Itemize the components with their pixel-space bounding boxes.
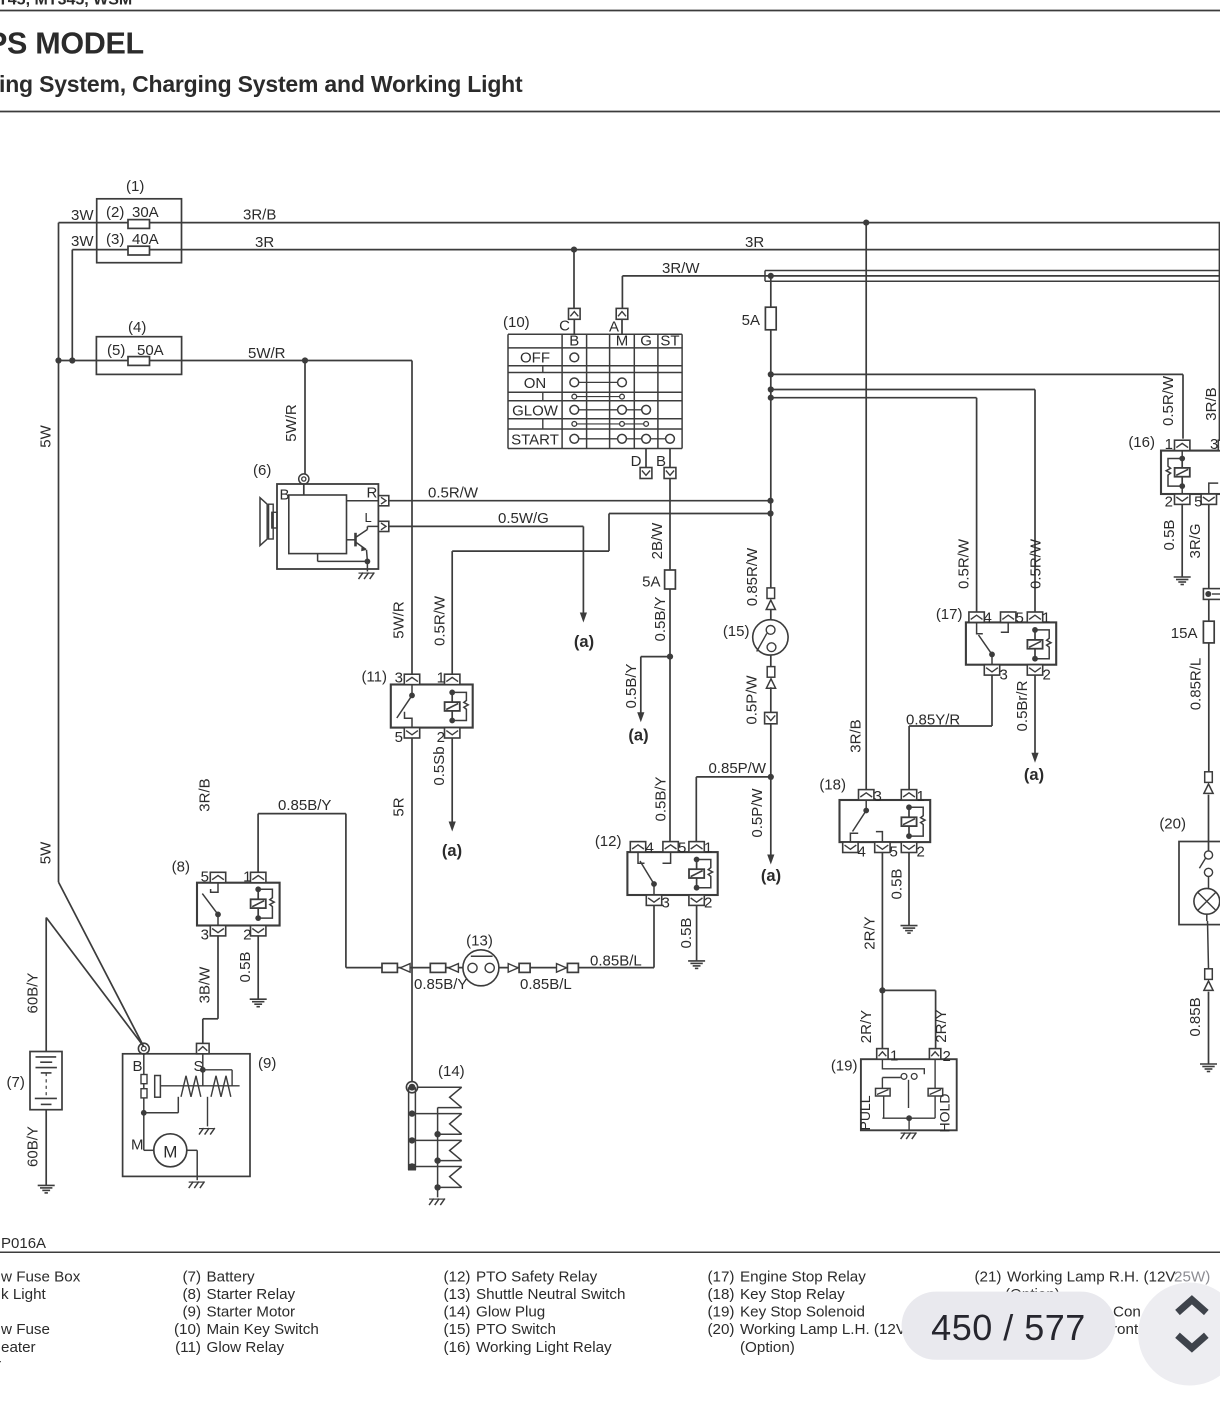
svg-text:0.85P/W: 0.85P/W <box>708 760 766 777</box>
solenoid pin 1 <box>877 1048 899 1065</box>
svg-text:3: 3 <box>201 927 209 944</box>
svg-text:3R/B: 3R/B <box>848 719 865 752</box>
relay 8 switch <box>202 883 221 926</box>
working lamp LH (20) <box>1159 795 1220 925</box>
label 0.85B/L (13) <box>520 976 572 993</box>
svg-text:3R/B: 3R/B <box>197 778 214 811</box>
svg-text:0.5B/Y: 0.5B/Y <box>652 596 669 641</box>
relay 12 pin 2 <box>689 895 712 912</box>
label 0.5R/W rotated <box>432 595 449 646</box>
label R (6) <box>367 485 378 502</box>
key stop relay (18) <box>819 777 930 843</box>
svg-text:3R/W: 3R/W <box>662 260 700 277</box>
svg-text:50A: 50A <box>137 342 164 359</box>
ground (12) <box>688 961 705 969</box>
svg-text:(8): (8) <box>172 859 190 876</box>
svg-text:1: 1 <box>243 869 251 886</box>
svg-text:Main Key Switch: Main Key Switch <box>207 1321 319 1338</box>
wire 3R/W <box>622 276 1220 309</box>
svg-text:1: 1 <box>890 1048 898 1065</box>
svg-text:1: 1 <box>917 788 925 805</box>
node (a) glow branch <box>628 727 648 745</box>
glow return bus <box>437 1108 439 1198</box>
starter coil ground <box>199 1097 215 1135</box>
svg-text:0.85B/Y: 0.85B/Y <box>414 976 467 993</box>
page header fragment (clipped) <box>0 0 132 9</box>
label 0.85B/L right <box>590 953 642 970</box>
glow bus terminal ring <box>406 1082 417 1093</box>
relay 12 pin 1 <box>689 840 712 857</box>
relay 16 pin 2 <box>1165 494 1190 511</box>
svg-text:T45, MT345, WSM: T45, MT345, WSM <box>0 0 132 9</box>
svg-text:C: C <box>559 318 570 335</box>
svg-text:3: 3 <box>1210 436 1218 453</box>
svg-text:3B/W: 3B/W <box>197 966 214 1004</box>
svg-text:0.5P/W: 0.5P/W <box>744 675 761 725</box>
starter S line <box>200 1054 232 1086</box>
relay 8 pin 1 <box>243 869 266 886</box>
relay 16 pin 5 <box>1194 494 1216 511</box>
svg-text:Key Stop Solenoid: Key Stop Solenoid <box>740 1304 865 1321</box>
wire C terminal <box>573 250 575 309</box>
svg-text:L: L <box>365 510 372 525</box>
svg-text:(7): (7) <box>182 1268 201 1285</box>
svg-text:0.5R/W: 0.5R/W <box>428 485 479 502</box>
relay 12 pin 3 <box>646 895 670 912</box>
wire 2R/Y <box>862 853 936 1049</box>
svg-text:5: 5 <box>678 840 686 857</box>
wire 0.5B ground (18) <box>889 853 910 926</box>
svg-text:5: 5 <box>201 869 209 886</box>
ground (20) <box>1200 1064 1217 1072</box>
PULL coil <box>857 1078 890 1131</box>
key stop solenoid (19) <box>831 1058 957 1131</box>
relay 12 pin 5 <box>663 840 686 857</box>
connector L out <box>378 521 388 531</box>
PTO switch (15) <box>723 610 788 655</box>
wire 0.5B/Y branch to (a) <box>623 657 670 723</box>
svg-text:(21): (21) <box>974 1268 1001 1285</box>
relay 17 pin 5 <box>1001 610 1024 627</box>
footer code P016A <box>1 1235 46 1252</box>
fuse box (1) <box>97 178 182 263</box>
key switch contacts AC1 row <box>572 394 625 399</box>
page scroll button <box>1138 1283 1220 1386</box>
svg-text:1: 1 <box>1042 610 1050 627</box>
svg-text:0.5W/G: 0.5W/G <box>498 510 549 527</box>
label 0.5P/W upper <box>744 675 761 725</box>
svg-text:0.5R/W: 0.5R/W <box>1028 538 1045 589</box>
label 3R/W <box>662 260 700 277</box>
svg-text:PTO Safety Relay: PTO Safety Relay <box>476 1268 598 1285</box>
glow relay (11) <box>361 669 472 728</box>
label 2B/W <box>649 522 666 560</box>
relay 11 pin 3 <box>395 670 420 687</box>
relay 16 pin 1 <box>1165 436 1190 453</box>
connector pair 1 (13) <box>382 963 410 972</box>
wire 5R <box>391 738 413 1082</box>
dynamo bottom link <box>318 554 371 572</box>
starter motor (9) <box>123 1054 277 1177</box>
wire 0.85R/W <box>744 330 774 606</box>
wire 5W/R to dynamo <box>283 361 305 475</box>
svg-text:P016A: P016A <box>1 1235 46 1252</box>
svg-text:(2): (2) <box>106 204 124 221</box>
svg-text:5A: 5A <box>742 312 760 329</box>
connector junction <box>1203 589 1220 600</box>
svg-text:(20): (20) <box>707 1321 734 1338</box>
junction dot 3R to key switch <box>571 247 577 253</box>
connector pair below PTO switch <box>766 655 775 688</box>
svg-text:B: B <box>280 487 290 504</box>
relay 8 coil <box>251 886 275 921</box>
svg-text:w Fuse: w Fuse <box>0 1321 50 1338</box>
wire 3B/W <box>197 936 219 1043</box>
svg-text:ON: ON <box>524 375 547 392</box>
3R/W bus outline <box>765 271 1220 282</box>
svg-text:(15): (15) <box>723 623 750 640</box>
svg-text:0.5R/W: 0.5R/W <box>1160 375 1177 426</box>
svg-text:0.85R/L: 0.85R/L <box>1188 658 1205 711</box>
key switch contacts ON row <box>570 378 627 387</box>
svg-text:5W/R: 5W/R <box>283 404 300 442</box>
relay 16 coil <box>1166 451 1190 494</box>
svg-text:(1): (1) <box>126 178 144 195</box>
relay 17 switch <box>977 622 1009 664</box>
starter B terminal <box>133 1043 150 1075</box>
svg-text:GLOW: GLOW <box>512 403 559 420</box>
svg-text:4: 4 <box>858 844 866 861</box>
wire 0.85Y/R <box>906 675 992 790</box>
junction dot 3R/W <box>768 273 774 279</box>
starter coil line <box>160 1085 239 1087</box>
svg-text:5: 5 <box>395 729 403 746</box>
svg-text:2R/Y: 2R/Y <box>933 1009 950 1042</box>
relay 17 coil <box>1027 627 1051 662</box>
svg-text:B: B <box>656 453 666 470</box>
label 5W upper <box>38 424 55 447</box>
svg-text:0.5B: 0.5B <box>678 918 695 949</box>
legend column 5 <box>974 1268 1210 1338</box>
svg-text:Key Stop Relay: Key Stop Relay <box>740 1286 845 1303</box>
svg-text:r: r <box>0 1356 1 1373</box>
svg-text:3W: 3W <box>71 207 94 224</box>
solenoid contacts <box>882 1074 917 1109</box>
svg-text:PS MODEL: PS MODEL <box>0 26 144 60</box>
label 5W/R <box>248 345 286 362</box>
svg-text:(a): (a) <box>1024 766 1044 784</box>
relay 17 pin 2 <box>1027 665 1051 684</box>
svg-text:0.85B/L: 0.85B/L <box>590 953 642 970</box>
svg-text:2R/Y: 2R/Y <box>862 916 879 949</box>
label (10) <box>503 314 530 331</box>
wire 0.85R/L <box>1188 643 1209 772</box>
legend column 1 <box>0 1268 81 1373</box>
svg-text:k Light: k Light <box>1 1286 47 1303</box>
glow plug 4 <box>415 1167 461 1191</box>
svg-text:Battery: Battery <box>207 1268 256 1285</box>
svg-text:15A: 15A <box>1171 625 1198 642</box>
glow plug (14) label <box>438 1063 465 1080</box>
svg-text:3R: 3R <box>745 234 764 251</box>
connector pair 2 (13) <box>430 963 458 972</box>
svg-text:(12): (12) <box>595 833 622 850</box>
fuse 15A <box>1171 599 1214 643</box>
svg-text:(13): (13) <box>443 1286 470 1303</box>
svg-text:5W/R: 5W/R <box>391 601 408 639</box>
svg-text:(11): (11) <box>361 669 387 686</box>
svg-text:3R/B: 3R/B <box>1203 387 1220 420</box>
relay 8 pin 5 <box>201 869 226 886</box>
wire 0.5R/W to glow relay <box>452 510 773 674</box>
ground (19) <box>901 1133 917 1140</box>
svg-text:B: B <box>569 332 579 349</box>
svg-text:0.5R/W: 0.5R/W <box>432 595 449 646</box>
svg-text:(a): (a) <box>628 727 648 745</box>
fuse F3 40A <box>106 231 159 255</box>
glow plug 3 <box>415 1140 461 1163</box>
label 3R mid <box>745 234 764 251</box>
connector pair (20) lower <box>1204 969 1213 991</box>
svg-text:ST: ST <box>660 332 679 349</box>
lamp bulb <box>1194 877 1220 915</box>
svg-text:5R: 5R <box>391 797 408 816</box>
svg-text:2: 2 <box>1043 667 1051 684</box>
svg-text:3R/B: 3R/B <box>243 207 276 224</box>
svg-text:START: START <box>511 432 559 449</box>
glow bus bar <box>409 1087 416 1170</box>
relay 12 pin 4 <box>630 840 654 857</box>
svg-text:G: G <box>640 332 652 349</box>
svg-text:0.5B: 0.5B <box>889 869 906 900</box>
svg-text:PTO Switch: PTO Switch <box>476 1321 556 1338</box>
wire 0.5B ground (16) <box>1161 504 1182 577</box>
wire B terminal <box>669 449 671 571</box>
svg-text:ront: ront <box>1112 1321 1139 1338</box>
svg-text:(a): (a) <box>761 867 781 885</box>
svg-text:2B/W: 2B/W <box>649 522 666 560</box>
ground (16) <box>1174 577 1191 585</box>
relay 11 pin 1 <box>437 670 460 687</box>
svg-text:(a): (a) <box>442 842 462 860</box>
svg-text:B: B <box>133 1058 143 1075</box>
svg-text:0.85B/L: 0.85B/L <box>520 976 572 993</box>
svg-text:w Fuse Box: w Fuse Box <box>0 1268 81 1285</box>
svg-text:(10): (10) <box>174 1321 201 1338</box>
connector pair 4 (13) <box>557 963 579 972</box>
svg-text:A: A <box>609 319 619 336</box>
title <box>0 26 144 60</box>
wire 3R/B right edge <box>1203 223 1220 441</box>
ground (6) <box>359 573 375 580</box>
svg-text:0.85R/W: 0.85R/W <box>744 547 761 606</box>
svg-text:3: 3 <box>1000 667 1008 684</box>
fuse F2 30A <box>106 204 159 228</box>
svg-text:Working Light Relay: Working Light Relay <box>476 1339 612 1356</box>
node (a) 0.5W/G <box>574 633 594 651</box>
svg-text:(3): (3) <box>106 231 124 248</box>
label 3W upper <box>71 207 94 224</box>
svg-text:OFF: OFF <box>520 350 550 367</box>
label 3R left <box>255 234 274 251</box>
wire 0.5B ground (8) <box>237 936 258 999</box>
svg-text:1: 1 <box>1165 436 1173 453</box>
wire 5W to starter <box>38 841 144 1046</box>
svg-text:5W/R: 5W/R <box>248 345 286 362</box>
svg-text:(18): (18) <box>819 777 846 794</box>
connector pair (20) upper <box>1204 772 1213 794</box>
svg-text:(17): (17) <box>707 1268 734 1285</box>
relay 17 pin 4 <box>969 610 992 627</box>
transistor Q <box>347 526 379 561</box>
wire 0.85B lower <box>1187 992 1209 1064</box>
svg-text:(6): (6) <box>253 462 271 479</box>
wire 0.85B/Y to shuttle switch <box>258 797 346 968</box>
pulley <box>260 498 277 546</box>
svg-text:60B/Y: 60B/Y <box>25 973 42 1014</box>
wire 0.85B/L from relay 12 <box>653 905 655 967</box>
svg-text:2: 2 <box>1165 494 1173 511</box>
svg-text:Working Lamp R.H. (12V: Working Lamp R.H. (12V <box>1007 1268 1176 1285</box>
legend column 4 <box>707 1268 949 1356</box>
ground (18) <box>901 926 918 934</box>
relay 12 coil <box>689 857 713 891</box>
key switch contacts GLOW row <box>570 405 651 414</box>
svg-text:(8): (8) <box>182 1286 201 1303</box>
svg-text:(9): (9) <box>258 1055 276 1072</box>
glow plug 2 <box>415 1114 461 1138</box>
svg-text:0.85Y/R: 0.85Y/R <box>906 712 960 729</box>
relay 18 pin 2 <box>901 842 925 860</box>
svg-text:Starter Motor: Starter Motor <box>207 1304 296 1321</box>
svg-text:3W: 3W <box>71 233 94 250</box>
svg-text:Glow Plug: Glow Plug <box>476 1304 545 1321</box>
wire 60B/Y battery positive <box>25 918 144 1052</box>
svg-text:2: 2 <box>704 895 712 912</box>
connector 0.5P/W <box>765 687 777 724</box>
fuse 5A (PTO feed) <box>742 276 777 330</box>
svg-text:2R/Y: 2R/Y <box>858 1010 875 1043</box>
svg-text:3R/G: 3R/G <box>1187 523 1204 558</box>
relay 11 coil <box>445 690 469 724</box>
wire 3R/G <box>1187 504 1209 588</box>
label 3W lower <box>71 233 94 250</box>
connector D <box>631 453 652 479</box>
svg-text:Shuttle Neutral Switch: Shuttle Neutral Switch <box>476 1286 625 1303</box>
key switch contacts OFF row <box>570 353 579 362</box>
wire 0.5Sb to (a) <box>431 738 456 832</box>
svg-text:(Option): (Option) <box>740 1339 795 1356</box>
footer rule <box>0 1251 1220 1253</box>
svg-text:(7): (7) <box>7 1074 25 1091</box>
svg-text:5W: 5W <box>38 841 55 864</box>
connector B <box>656 453 676 479</box>
svg-text:5: 5 <box>1194 494 1202 511</box>
relay 11 switch <box>397 685 415 728</box>
dynamo R link <box>347 500 379 502</box>
starter relay (8) <box>172 859 280 926</box>
wire 0.85P/W <box>708 724 773 780</box>
key switch contacts START row <box>570 434 675 443</box>
label 3R/B <box>243 207 276 224</box>
label B (6) <box>280 487 290 504</box>
node (a) 0.5P/W <box>761 867 781 885</box>
node (a) 0.5Br/R <box>1024 766 1044 784</box>
fuse F5 50A <box>107 342 164 365</box>
svg-text:30A: 30A <box>132 204 159 221</box>
wire 60B/Y battery negative <box>24 1110 46 1186</box>
wire 0.85B <box>1207 914 1209 969</box>
relay 8 pin 3 <box>201 926 226 944</box>
starter motor M <box>131 1113 187 1167</box>
starter contact plate <box>155 1076 161 1098</box>
starter motor ground <box>187 1150 205 1188</box>
wire 0.85B/Y up from pin1 <box>257 814 259 873</box>
svg-text:(4): (4) <box>128 319 146 336</box>
wire 3R/B top <box>59 223 1220 883</box>
svg-text:(20): (20) <box>1159 816 1186 833</box>
svg-text:3: 3 <box>395 670 403 687</box>
svg-text:0.5B: 0.5B <box>1161 520 1178 551</box>
ground (8) <box>250 999 267 1007</box>
wire 0.5R/W from R <box>389 485 774 504</box>
svg-text:Starter Relay: Starter Relay <box>207 1286 296 1303</box>
wire 0.5R/W to working light relay <box>771 374 1183 438</box>
svg-text:3: 3 <box>662 895 670 912</box>
fuse box (4) <box>96 319 181 374</box>
relay 18 pin 1 <box>901 788 925 805</box>
wire 0.5W/G from L <box>389 510 587 623</box>
wire 0.85B/L run <box>346 967 654 969</box>
HOLD coil <box>928 1059 952 1132</box>
svg-text:0.5Br/R: 0.5Br/R <box>1014 680 1031 731</box>
svg-text:(11): (11) <box>175 1339 201 1356</box>
connector R out <box>378 496 388 506</box>
engine stop relay (17) <box>936 606 1056 665</box>
svg-text:D: D <box>631 453 642 470</box>
svg-text:(14): (14) <box>438 1063 465 1080</box>
svg-text:(19): (19) <box>831 1058 858 1075</box>
solenoid pin 2 <box>929 1048 950 1065</box>
svg-text:5A: 5A <box>642 574 660 591</box>
glow plug 1 <box>417 1087 462 1107</box>
svg-text:Engine Stop Relay: Engine Stop Relay <box>740 1268 866 1285</box>
wire D terminal <box>645 449 647 468</box>
svg-text:5: 5 <box>1016 610 1024 627</box>
svg-text:5: 5 <box>890 844 898 861</box>
ground (14) <box>429 1199 445 1206</box>
battery (7) <box>7 1052 63 1110</box>
wire to PTO relay pin1 <box>696 777 771 842</box>
starter S connector <box>194 1043 210 1075</box>
svg-text:PULL: PULL <box>857 1095 873 1130</box>
svg-text:(16): (16) <box>1128 434 1155 451</box>
relay 17 pin 1 <box>1027 610 1050 627</box>
svg-text:0.5B/Y: 0.5B/Y <box>623 663 640 708</box>
dynamo terminal ring <box>299 474 309 484</box>
starter hold-in coil <box>211 1076 231 1097</box>
svg-text:0.5R/W: 0.5R/W <box>956 538 973 589</box>
starter link to motor <box>144 1097 178 1113</box>
label 0.85B/Y (13) <box>414 976 467 993</box>
subtitle <box>0 71 523 97</box>
connector pair above PTO switch <box>766 588 775 610</box>
svg-text:(5): (5) <box>107 342 125 359</box>
svg-text:1: 1 <box>704 840 712 857</box>
connector C <box>559 308 580 334</box>
legend column 2 <box>174 1268 319 1356</box>
working light relay (16) <box>1128 434 1220 494</box>
